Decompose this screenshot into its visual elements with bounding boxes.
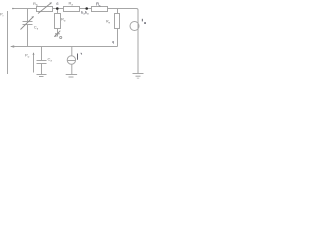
- source V1 circle: [67, 56, 75, 64]
- capacitor C2 top lead: [41, 47, 43, 61]
- wire top rail seg1: [12, 8, 36, 10]
- arrow variable resistor R1: [38, 3, 51, 14]
- svg-text:Cэ: Cэ: [48, 57, 53, 63]
- arrowhead vertical mark: [33, 52, 35, 55]
- terminal tick left end: [12, 8, 14, 10]
- resistor R5 vertical box: [115, 14, 120, 29]
- node 1 dot: [56, 7, 59, 10]
- svg-text:БэБэ: БэБэ: [81, 11, 89, 16]
- svg-text:Cк: Cк: [34, 25, 39, 31]
- diode-like mark below R2: [55, 33, 60, 35]
- capacitor C1 plates: [23, 21, 33, 23]
- wire top rail seg3: [80, 8, 91, 10]
- svg-text:Rэ: Rэ: [61, 17, 66, 23]
- node 2 dot: [85, 7, 88, 10]
- svg-text:Rэ: Rэ: [69, 1, 74, 7]
- source V1 top lead: [71, 47, 73, 56]
- svg-text:Rб: Rб: [33, 1, 38, 7]
- ground C2 bar1: [37, 74, 47, 76]
- ground right bar3: [137, 77, 139, 79]
- wire R5 bottom lead: [117, 29, 119, 47]
- svg-text:Pо: Pо: [25, 53, 30, 59]
- ground right bar2: [136, 75, 141, 77]
- svg-text:б: б: [56, 2, 58, 6]
- label right of I1: [141, 19, 143, 22]
- resistor R1 variable box: [37, 7, 53, 12]
- wire bottom middle rail: [11, 46, 118, 48]
- resistor R2 vertical box: [55, 14, 61, 29]
- wire C1 lower stem: [27, 25, 29, 46]
- source V1 bar: [67, 60, 75, 62]
- capacitor C2 bottom lead: [41, 64, 43, 74]
- wire vertical mark: [33, 53, 35, 73]
- label right of V1 tick: [81, 53, 82, 55]
- source V1 bottom lead: [71, 64, 73, 74]
- wire top rail seg4 and right rail: [108, 9, 139, 74]
- ground right bar1: [133, 73, 144, 75]
- ground V1 bar1: [66, 74, 77, 76]
- svg-text:Pг: Pг: [0, 12, 4, 18]
- arrow variable capacitor C1: [21, 17, 34, 30]
- wire node1 to R2: [57, 9, 59, 14]
- wire left rail: [7, 11, 9, 74]
- label right of V1 stroke: [77, 54, 79, 60]
- svg-text:q: q: [112, 39, 114, 44]
- resistor R3 box: [64, 7, 80, 12]
- ground C2 bar2: [39, 76, 44, 78]
- svg-text:Rн: Rн: [106, 20, 111, 25]
- capacitor C2 plates: [37, 60, 47, 62]
- wire R2 bottom lead: [57, 29, 59, 37]
- source I1 circle: [130, 22, 139, 31]
- wire top rail to R5: [117, 9, 119, 14]
- wire top rail seg2: [53, 8, 64, 10]
- capacitor C1 branch stem upper: [27, 9, 29, 22]
- resistor R4 box: [92, 7, 108, 12]
- ground V1 bar2: [69, 76, 74, 78]
- arrow bottom rail left end: [10, 45, 14, 48]
